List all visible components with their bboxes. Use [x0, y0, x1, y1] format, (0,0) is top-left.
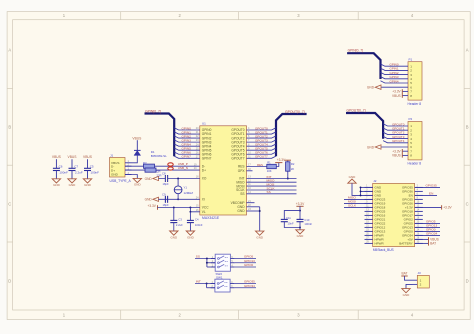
pin VBCOMP of U1	[231, 200, 255, 205]
wire GPIN4 to P1	[381, 79, 409, 83]
svg-text:A: A	[466, 48, 469, 53]
svg-text:D+: D+	[202, 168, 206, 172]
svg-text:VBUS: VBUS	[52, 155, 62, 159]
bus GPIN[0..7]	[347, 49, 380, 79]
svg-text:C11: C11	[286, 216, 291, 220]
svg-text:SCLK: SCLK	[348, 204, 357, 208]
wire GPIO13 net at SW2	[235, 259, 256, 263]
ground at P2 pin 6	[367, 145, 408, 150]
power BAT at J2 BATTERY pin	[415, 241, 437, 246]
svg-text:VBUS: VBUS	[392, 154, 401, 158]
pin D+ of U1	[194, 167, 206, 172]
svg-text:C5: C5	[90, 165, 94, 169]
svg-text:D: D	[8, 278, 11, 283]
wire GPIN2 to P1	[381, 71, 409, 75]
wire GPIN0 to P1	[381, 63, 409, 67]
svg-text:GPIO34: GPIO34	[244, 284, 255, 288]
ferrite bead FB2	[168, 167, 173, 170]
wire EN net at J2	[415, 192, 437, 196]
svg-text:100nF: 100nF	[304, 222, 312, 226]
svg-text:SS: SS	[196, 255, 200, 259]
wire VBUS from J1 to D1	[132, 155, 138, 162]
diode D1 B0530W-SL	[134, 150, 167, 158]
svg-text:C10: C10	[304, 218, 309, 222]
ground at U1 GND pins	[237, 204, 263, 240]
power +3.3V at J2	[415, 205, 453, 210]
svg-text:R2: R2	[291, 162, 295, 166]
wire GPOUT4 from U1	[231, 142, 276, 148]
capacitor C6	[52, 155, 68, 187]
wire GPIN4 to U1	[174, 142, 211, 148]
pin GPX of U1	[238, 168, 253, 173]
svg-text:D+: D+	[111, 168, 115, 172]
connector J1 USB_TYPE_A	[110, 153, 132, 182]
pin D- of U1	[194, 163, 205, 168]
svg-text:RES: RES	[257, 163, 263, 167]
svg-text:C9: C9	[162, 192, 166, 196]
wire GPOUT0 from U1	[231, 126, 276, 132]
svg-text:VBUS: VBUS	[392, 94, 401, 98]
svg-text:GND: GND	[134, 183, 142, 187]
svg-text:B: B	[466, 124, 469, 129]
capacitor C3 2.2uF	[170, 208, 184, 240]
wire XO with capacitor C8	[145, 172, 207, 187]
svg-text:+3.3V: +3.3V	[296, 202, 305, 206]
svg-text:INT: INT	[196, 280, 201, 284]
wire GPIN3 to P1	[381, 75, 409, 79]
svg-text:VBUS: VBUS	[83, 155, 93, 159]
wire GPOUT7 from U1	[231, 155, 276, 161]
wire GPIO5 net at SW2	[235, 255, 256, 259]
wire SCLK from U1	[236, 186, 296, 192]
svg-text:12MHZ: 12MHZ	[184, 191, 194, 195]
svg-text:R3: R3	[143, 161, 147, 165]
svg-text:B: B	[8, 124, 11, 129]
wire D+ with resistor R4	[125, 168, 200, 178]
connector J3 battery	[413, 271, 430, 288]
svg-text:GPIN[0..7]: GPIN[0..7]	[348, 49, 363, 53]
svg-text:18pF: 18pF	[163, 203, 169, 207]
svg-text:C: C	[8, 202, 11, 207]
wire GPIN2 to U1	[174, 134, 211, 140]
wire GPIN7 to U1	[174, 155, 211, 161]
svg-text:GND: GND	[111, 173, 119, 177]
svg-text:GPIO34: GPIO34	[426, 232, 437, 236]
crystal Y1 12MHZ	[174, 178, 193, 201]
wire GPOUT1 to P2	[383, 127, 408, 131]
svg-text:100nF: 100nF	[91, 170, 100, 174]
svg-text:GPOUT[0..7]: GPOUT[0..7]	[347, 108, 366, 112]
ground below decoupling	[296, 228, 304, 239]
wire MOSI from U1	[236, 182, 296, 188]
svg-text:GND: GND	[69, 183, 77, 187]
svg-text:XO: XO	[202, 177, 207, 181]
ground at J2 GND pins	[348, 175, 373, 196]
svg-text:VBUS: VBUS	[68, 155, 78, 159]
svg-text:GND: GND	[170, 235, 178, 239]
svg-text:BATTERY: BATTERY	[399, 242, 413, 246]
wire XI with capacitor C9	[145, 192, 205, 206]
bus GPOUT[0..7] right	[276, 110, 307, 156]
svg-text:GND: GND	[145, 198, 153, 202]
svg-text:EN: EN	[429, 192, 433, 196]
svg-text:BAT: BAT	[430, 242, 436, 246]
capacitor C5	[83, 155, 99, 187]
wire D- with resistor R3	[125, 161, 200, 174]
svg-text:GND: GND	[53, 183, 61, 187]
svg-text:P2: P2	[409, 117, 413, 121]
op IC U1 MAX3421E body	[200, 121, 247, 220]
wire SCLK to J2	[344, 204, 373, 208]
net label USB_P	[178, 162, 188, 166]
power +3.3V to VCC and VL	[147, 204, 209, 214]
wire GPOUT6 from U1	[231, 151, 276, 157]
capacitor C7	[68, 155, 83, 187]
wire GPIN1 to P1	[381, 67, 409, 71]
svg-text:USB_TYPE_A: USB_TYPE_A	[110, 179, 132, 183]
wire GPOUT2 from U1	[231, 134, 276, 140]
bus GPIN[0..7] left	[145, 110, 175, 157]
svg-text:GPIN7: GPIN7	[182, 155, 192, 159]
wire GPOUT3 to P2	[383, 135, 408, 139]
svg-text:GPOUT[0..7]: GPOUT[0..7]	[285, 110, 305, 114]
svg-text:GND: GND	[256, 235, 264, 239]
svg-text:BAT: BAT	[402, 272, 408, 276]
wire GPIO5 net at J2	[415, 220, 440, 224]
svg-text:GPIO0: GPIO0	[244, 263, 254, 267]
svg-text:GND: GND	[367, 145, 375, 149]
svg-text:GPIN[0..7]: GPIN[0..7]	[145, 110, 161, 114]
wire GPOUT4 to P2	[383, 139, 408, 143]
ferrite bead FB1	[168, 163, 173, 166]
svg-text:SS: SS	[267, 190, 271, 194]
wire MISO to J2	[344, 196, 373, 200]
connector J2 M5Stack_BUS body	[365, 179, 423, 252]
wire GPIN1 to U1	[174, 130, 211, 136]
wire GPIN0 to U1	[174, 126, 211, 132]
svg-text:+3.3V: +3.3V	[147, 204, 156, 208]
svg-text:VBUS: VBUS	[132, 136, 142, 140]
switch SW2	[211, 254, 235, 276]
wire INT to SW1	[195, 280, 215, 288]
svg-text:C6: C6	[59, 165, 63, 169]
svg-text:10nF: 10nF	[288, 221, 294, 225]
svg-text:C8: C8	[162, 172, 166, 176]
wire INT from U1	[239, 175, 296, 181]
resistor R2 2K pullup on INT	[285, 160, 295, 179]
ground at J3	[402, 284, 413, 297]
svg-text:U1: U1	[202, 121, 206, 125]
ground at P1 pin 6	[367, 85, 408, 90]
wire GPOUT1 from U1	[231, 130, 276, 136]
svg-text:GND: GND	[349, 175, 357, 179]
svg-text:GPIO35: GPIO35	[426, 184, 437, 188]
svg-text:C3: C3	[178, 218, 182, 222]
svg-text:C4: C4	[195, 218, 199, 222]
wire GPIO35 net at SW1	[234, 280, 256, 284]
svg-text:Y1: Y1	[184, 186, 188, 190]
wire GPIN5 to U1	[174, 147, 211, 153]
power VBUS at J2 +5V pin	[415, 237, 439, 242]
wire GPIO13 net at J2	[415, 224, 440, 228]
capacitor C11 10nF	[281, 211, 300, 228]
resistor R1 10K on RES	[238, 158, 286, 173]
svg-text:GPIN7: GPIN7	[202, 156, 212, 160]
svg-text:Header 8: Header 8	[408, 102, 422, 106]
svg-text:10K: 10K	[267, 169, 272, 173]
capacitor C4 100nF	[186, 212, 203, 240]
power VBUS at P1 pin 8	[392, 93, 408, 98]
svg-text:GPIN4: GPIN4	[390, 79, 399, 83]
bus GPOUT[0..7]	[346, 108, 383, 138]
svg-text:VL: VL	[202, 210, 206, 214]
svg-text:SW1: SW1	[216, 275, 223, 279]
svg-text:100nF: 100nF	[59, 170, 68, 174]
svg-text:+3.3V: +3.3V	[443, 206, 452, 210]
capacitor C10 100nF	[297, 211, 313, 229]
svg-text:GND: GND	[187, 235, 195, 239]
wire GPOUT0 to P2	[383, 122, 408, 126]
svg-text:M5Stack_BUS: M5Stack_BUS	[373, 248, 394, 252]
wire GPIO35 net at J2	[415, 184, 440, 188]
svg-text:USB_N: USB_N	[178, 166, 188, 170]
wire GPOUT2 to P2	[383, 131, 408, 135]
wire GPIN6 to U1	[174, 151, 211, 157]
power +3.3V at P1 pin 7	[392, 89, 408, 94]
wire GPIO0 net at SW2	[235, 263, 256, 267]
svg-text:GPX: GPX	[238, 169, 246, 173]
svg-text:2.2uF: 2.2uF	[75, 170, 83, 174]
svg-text:GND: GND	[367, 86, 375, 90]
power VBUS at P2 pin 8	[392, 153, 408, 158]
svg-text:R1: R1	[267, 161, 271, 165]
net label USB_N	[178, 166, 188, 170]
wire SS to SW2	[195, 255, 215, 268]
svg-text:A: A	[8, 48, 11, 53]
svg-text:P1: P1	[409, 57, 413, 61]
ground at J1	[125, 175, 142, 187]
svg-text:GND: GND	[145, 177, 153, 181]
svg-text:2K: 2K	[291, 167, 294, 171]
svg-text:D: D	[466, 278, 469, 283]
svg-text:GND: GND	[84, 183, 92, 187]
wire GPOUT5 from U1	[231, 147, 276, 153]
wire GPIO0 net at J2	[415, 228, 440, 232]
svg-text:GND: GND	[297, 234, 305, 238]
svg-text:XI: XI	[202, 198, 205, 202]
svg-text:J1: J1	[110, 153, 114, 157]
wire MISO from U1	[236, 179, 296, 185]
power +3.3V at P2 pin 7	[392, 149, 408, 154]
wire GPIN3 to U1	[174, 138, 211, 144]
svg-text:HPWR: HPWR	[375, 242, 385, 246]
svg-text:B0530W-SL: B0530W-SL	[151, 154, 167, 158]
svg-text:GPOUT7: GPOUT7	[231, 156, 244, 160]
svg-text:J3: J3	[418, 271, 422, 275]
svg-text:18pF: 18pF	[163, 182, 169, 186]
wire GPIO34 net at J2	[415, 232, 440, 236]
connector P1 Header 8	[408, 57, 423, 106]
svg-text:SS: SS	[240, 192, 244, 196]
svg-text:100nF: 100nF	[195, 223, 203, 227]
power BAT at J3	[401, 272, 417, 281]
wire SS from U1	[240, 190, 296, 196]
svg-text:C7: C7	[74, 165, 78, 169]
svg-text:2.2uF: 2.2uF	[176, 223, 183, 227]
wire GPOUT3 from U1	[231, 138, 276, 144]
switch SW1	[211, 275, 235, 292]
wire GPIO34 net at SW1	[234, 284, 256, 288]
svg-text:GND: GND	[403, 293, 411, 297]
svg-text:GND: GND	[237, 209, 245, 213]
svg-text:MAX3421E: MAX3421E	[202, 216, 220, 220]
svg-text:GPOUT7: GPOUT7	[255, 155, 268, 159]
svg-text:GPOUT4: GPOUT4	[392, 139, 405, 143]
power +3.3V decoupling	[296, 202, 305, 212]
connector P2 Header 8	[408, 117, 423, 166]
svg-text:J2: J2	[373, 179, 377, 183]
wire VBUS net label above D1	[132, 136, 142, 150]
wire MOSI to J2	[344, 200, 373, 204]
svg-text:Header 8: Header 8	[408, 162, 422, 166]
svg-text:C: C	[466, 202, 469, 207]
